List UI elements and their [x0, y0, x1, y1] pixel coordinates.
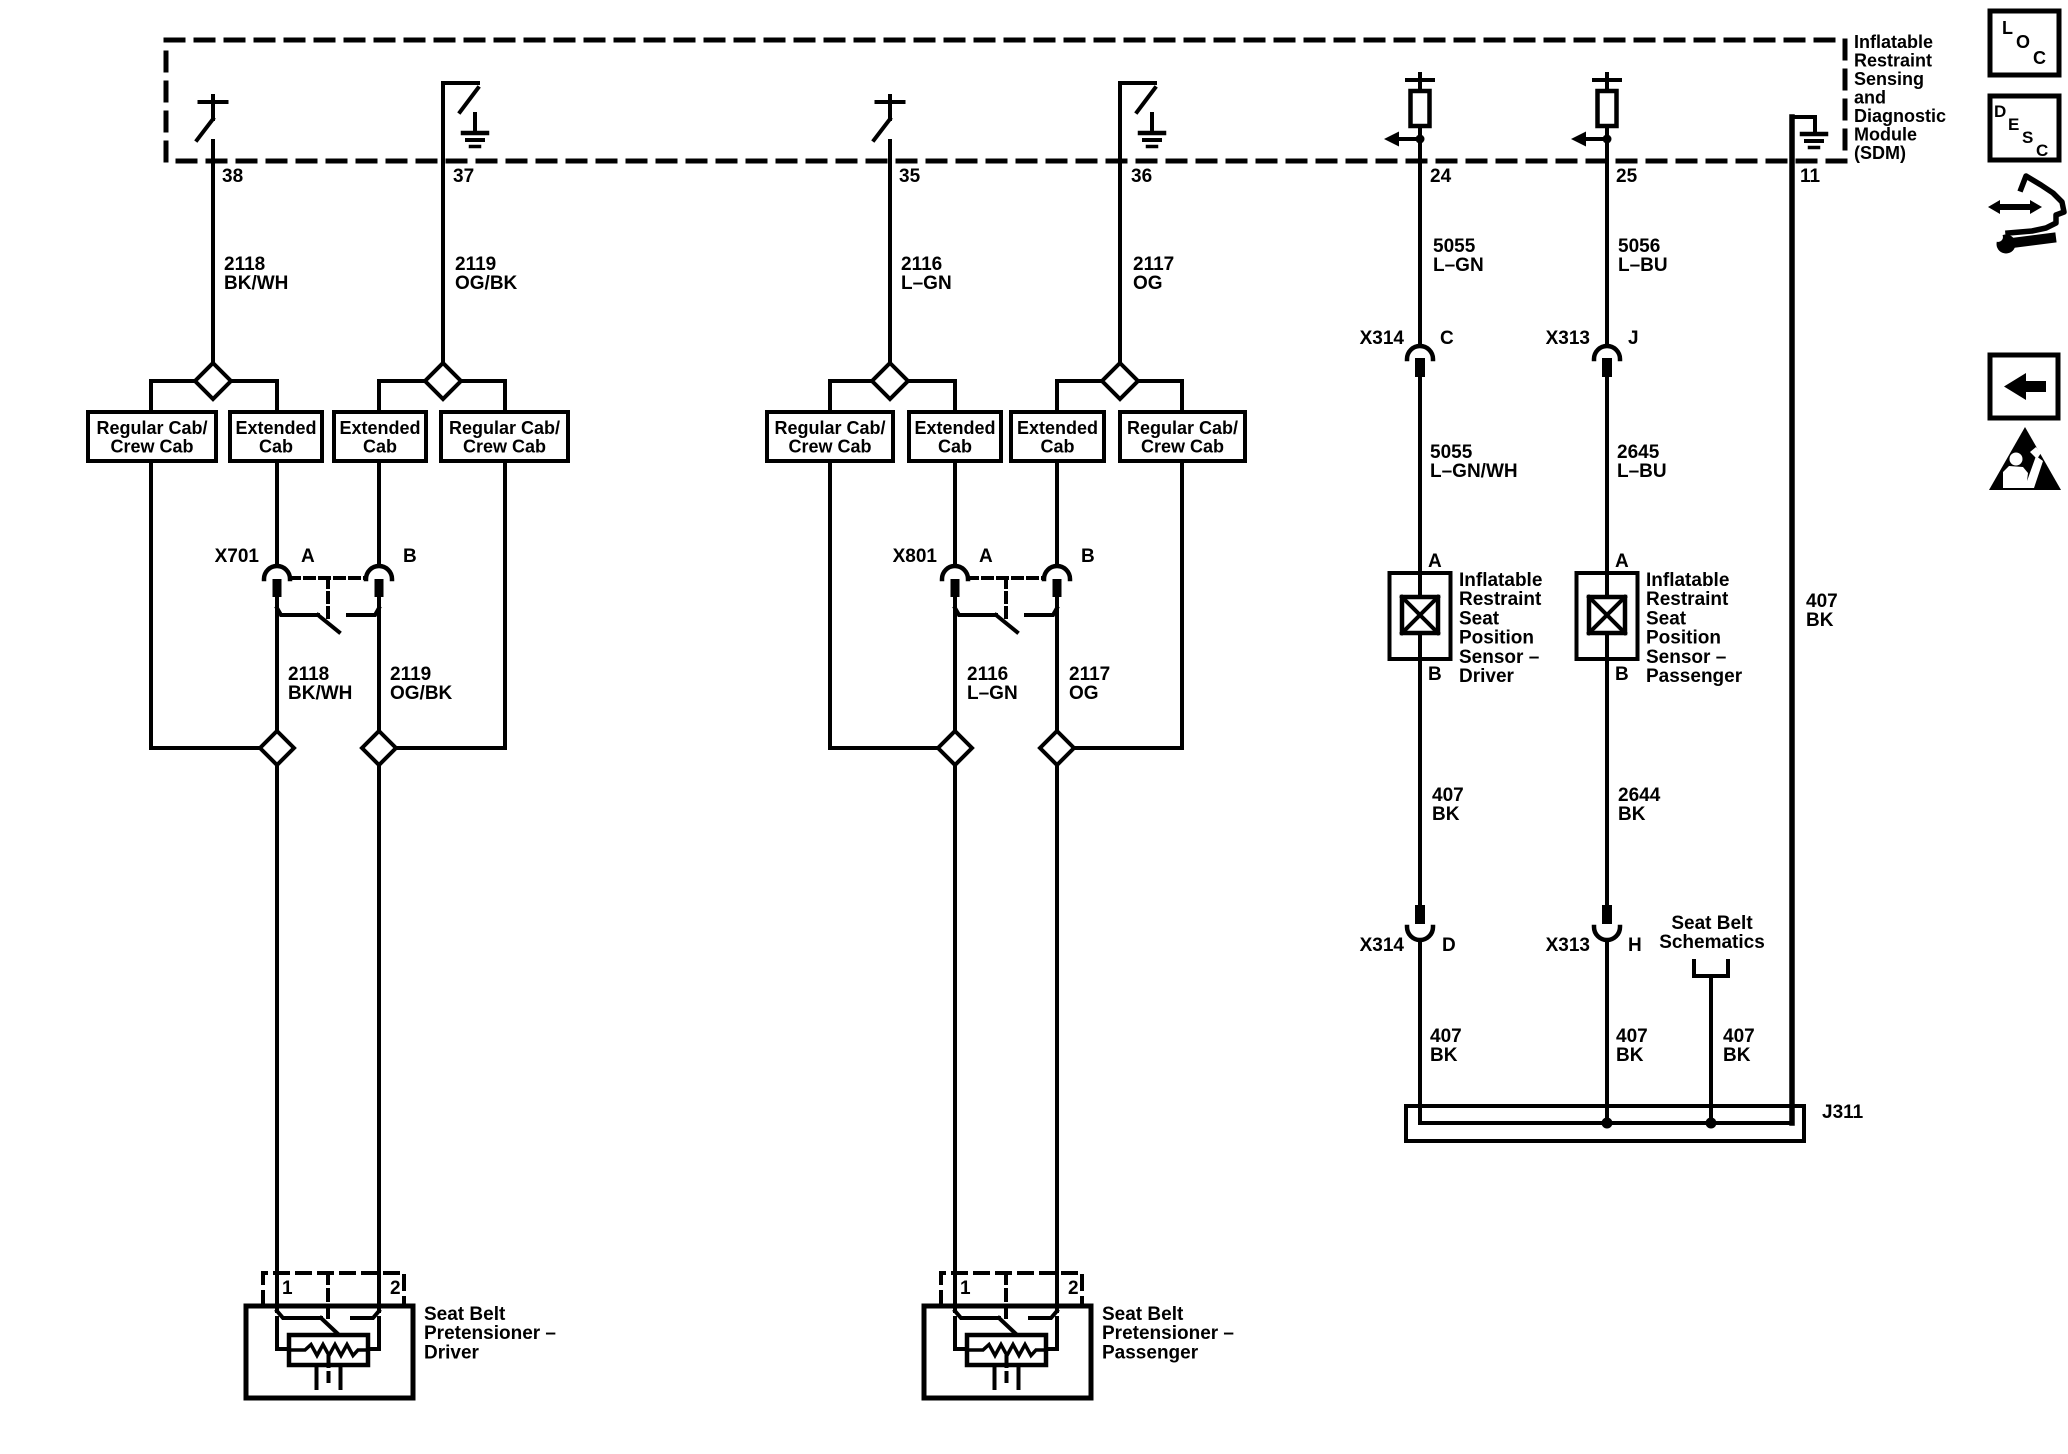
- svg-text:Sensor –: Sensor –: [1459, 647, 1539, 668]
- svg-text:2119: 2119: [390, 664, 431, 685]
- svg-text:X801: X801: [893, 546, 938, 567]
- svg-text:11: 11: [1800, 166, 1821, 187]
- connector face (dashed) of pretensioner Driver: [263, 1273, 404, 1305]
- svg-text:OG/BK: OG/BK: [455, 273, 518, 294]
- branch wire to Extended Cab: [908, 381, 955, 412]
- svg-text:407: 407: [1616, 1026, 1648, 1047]
- connector X314 cavity D: [1415, 905, 1425, 924]
- squib leads: [955, 1318, 967, 1349]
- inflatable restraint seat position sensor Passenger: [1577, 573, 1638, 659]
- wire through sensor driver: [1418, 377, 1422, 597]
- wire 2117 OG from SDM pin 36: [1118, 161, 1122, 363]
- svg-text:A: A: [979, 546, 993, 567]
- svg-text:C: C: [2036, 141, 2048, 160]
- svg-text:Seat Belt: Seat Belt: [1671, 913, 1753, 934]
- svg-text:407: 407: [1430, 1026, 1462, 1047]
- svg-text:Regular Cab/: Regular Cab/: [96, 418, 207, 438]
- svg-text:D: D: [1994, 102, 2006, 121]
- option box Extended Cab (2118): [230, 412, 322, 461]
- branch wire to Extended Cab: [379, 381, 425, 412]
- X801 shorting-bar dashed link: [968, 576, 1044, 580]
- svg-text:Schematics: Schematics: [1659, 932, 1765, 953]
- inflatable restraint seat position sensor Driver: [1390, 573, 1451, 659]
- SDM driver-firing switch, pin 35: [888, 96, 892, 102]
- splice diamond on wire 2116: [872, 363, 908, 399]
- wire 2117 Extended Cab through X801-B: [1055, 461, 1059, 566]
- option box Extended Cab (2116): [909, 412, 1001, 461]
- svg-text:BK: BK: [1430, 1045, 1458, 1066]
- branch wire to Extended Cab: [231, 381, 277, 412]
- wire 2118 to pretensioner driver pin 1: [275, 765, 279, 1311]
- SDM internal ground, pin 11: [1792, 117, 1815, 133]
- svg-text:407: 407: [1723, 1026, 1755, 1047]
- legend icon SIR caution triangle: [1989, 427, 2061, 490]
- svg-text:BK/WH: BK/WH: [224, 273, 288, 294]
- svg-text:2117: 2117: [1069, 664, 1110, 685]
- svg-text:Passenger: Passenger: [1646, 666, 1743, 687]
- wire 2118 BK/WH from SDM pin 38: [211, 141, 215, 363]
- splice diamond on wire 2118: [195, 363, 231, 399]
- svg-text:Seat Belt: Seat Belt: [1102, 1304, 1184, 1325]
- wire 2119 to pretensioner driver pin 2: [377, 765, 381, 1311]
- svg-text:Driver: Driver: [1459, 666, 1515, 687]
- svg-text:Sensor –: Sensor –: [1646, 647, 1726, 668]
- pretensioner Passenger case: [924, 1306, 1091, 1398]
- wire 407 BK to J311: [1420, 943, 1790, 1123]
- squib leads: [277, 1318, 289, 1349]
- svg-text:Extended: Extended: [1017, 418, 1098, 438]
- wire 2118 Extended Cab through X701-A: [275, 461, 279, 566]
- svg-text:L–GN/WH: L–GN/WH: [1430, 461, 1518, 482]
- legend icon LOC: [1990, 11, 2059, 75]
- svg-text:24: 24: [1430, 166, 1452, 187]
- svg-text:5055: 5055: [1430, 442, 1473, 463]
- svg-text:2118: 2118: [288, 664, 329, 685]
- svg-text:Passenger: Passenger: [1102, 1342, 1199, 1363]
- wire Regular Cab/Crew Cab loop (2117): [1073, 461, 1182, 748]
- svg-text:2116: 2116: [967, 664, 1008, 685]
- svg-text:2: 2: [1068, 1278, 1079, 1299]
- branch wire to Regular Cab/Crew Cab: [1138, 381, 1182, 412]
- splice diamond wire 2117: [1040, 731, 1074, 765]
- svg-text:Sensing: Sensing: [1854, 69, 1924, 89]
- svg-text:Restraint: Restraint: [1854, 51, 1932, 71]
- svg-text:Inflatable: Inflatable: [1646, 570, 1729, 591]
- svg-text:B: B: [1615, 664, 1629, 685]
- svg-text:J311: J311: [1822, 1102, 1864, 1123]
- svg-text:Seat: Seat: [1459, 608, 1500, 629]
- connector X313 cavity H: [1602, 905, 1612, 924]
- svg-text:L–BU: L–BU: [1617, 461, 1667, 482]
- svg-text:Position: Position: [1459, 628, 1534, 649]
- svg-text:Crew Cab: Crew Cab: [110, 437, 193, 457]
- SDM internal ground, pin 36: [1120, 83, 1155, 363]
- svg-text:A: A: [1615, 551, 1629, 572]
- svg-text:Pretensioner –: Pretensioner –: [1102, 1323, 1234, 1344]
- svg-text:BK/WH: BK/WH: [288, 683, 352, 704]
- svg-text:BK: BK: [1432, 804, 1460, 825]
- igniter base: [993, 1365, 997, 1388]
- wire 407 BK to J311 (passenger): [1605, 943, 1609, 1123]
- X801 shorting-bar contacts: [955, 608, 996, 615]
- shorting clip contacts: [277, 1311, 321, 1318]
- splice diamond wire 2119: [362, 731, 396, 765]
- wire 2119 OG/BK from SDM pin 37: [441, 161, 445, 363]
- svg-text:35: 35: [899, 166, 921, 187]
- svg-text:2644: 2644: [1618, 785, 1661, 806]
- svg-text:L–GN: L–GN: [901, 273, 952, 294]
- svg-text:and: and: [1854, 88, 1886, 108]
- svg-text:Regular Cab/: Regular Cab/: [774, 418, 885, 438]
- X701 shorting-bar dashed link: [290, 576, 366, 580]
- svg-text:OG/BK: OG/BK: [390, 683, 453, 704]
- svg-text:Cab: Cab: [259, 437, 293, 457]
- svg-text:L–GN: L–GN: [1433, 255, 1484, 276]
- splice diamond on wire 2119: [425, 363, 461, 399]
- svg-text:B: B: [1428, 664, 1442, 685]
- junction dot schematics wire: [1706, 1118, 1717, 1129]
- svg-text:1: 1: [282, 1278, 293, 1299]
- svg-text:Inflatable: Inflatable: [1854, 32, 1933, 52]
- SDM sense resistor with arrow, pin 25: [1605, 74, 1609, 80]
- svg-text:L–BU: L–BU: [1618, 255, 1668, 276]
- connector X801 pin A arc: [942, 566, 968, 579]
- SDM sense resistor with arrow, pin 24: [1418, 74, 1422, 80]
- svg-text:Cab: Cab: [938, 437, 972, 457]
- svg-text:B: B: [403, 546, 417, 567]
- svg-text:OG: OG: [1133, 273, 1163, 294]
- junction dot X313-H wire: [1602, 1118, 1613, 1129]
- wire 5055 L-GN from SDM pin 24: [1418, 141, 1422, 344]
- svg-text:BK: BK: [1723, 1045, 1751, 1066]
- svg-text:H: H: [1628, 935, 1642, 956]
- igniter base: [315, 1365, 319, 1388]
- splice diamond on wire 2117: [1102, 363, 1138, 399]
- branch wire to Regular Cab/Crew Cab: [151, 381, 195, 412]
- svg-text:Extended: Extended: [339, 418, 420, 438]
- svg-text:E: E: [2008, 115, 2019, 134]
- svg-text:Seat: Seat: [1646, 608, 1687, 629]
- svg-text:25: 25: [1616, 166, 1638, 187]
- svg-text:S: S: [2022, 128, 2033, 147]
- svg-text:5056: 5056: [1618, 236, 1660, 257]
- svg-text:X314: X314: [1360, 328, 1405, 349]
- wire 5056 L-BU from SDM pin 25: [1605, 141, 1609, 344]
- connector X314 cavity C: [1407, 346, 1433, 359]
- svg-text:Restraint: Restraint: [1646, 589, 1729, 610]
- splice diamond wire 2116: [938, 731, 972, 765]
- svg-text:Extended: Extended: [235, 418, 316, 438]
- svg-text:2118: 2118: [224, 254, 265, 275]
- svg-text:B: B: [1081, 546, 1095, 567]
- wire 2116 L-GN from SDM pin 35: [888, 141, 892, 363]
- pretensioner Driver case: [246, 1306, 413, 1398]
- svg-text:(SDM): (SDM): [1854, 143, 1906, 163]
- svg-text:BK: BK: [1616, 1045, 1644, 1066]
- SDM internal ground, pin 37: [443, 83, 478, 363]
- svg-text:2117: 2117: [1133, 254, 1174, 275]
- connector X801 pin B arc: [1044, 566, 1070, 579]
- svg-text:Regular Cab/: Regular Cab/: [1127, 418, 1238, 438]
- option box Regular Cab/Crew Cab (2117): [1120, 412, 1245, 461]
- svg-text:C: C: [2033, 48, 2046, 68]
- branch wire to Regular Cab/Crew Cab: [461, 381, 505, 412]
- branch wire to Regular Cab/Crew Cab: [830, 381, 872, 412]
- svg-text:407: 407: [1432, 785, 1464, 806]
- option box Regular Cab/Crew Cab (2116): [767, 412, 893, 461]
- option box Extended Cab (2119): [334, 412, 426, 461]
- wire 2119 Extended Cab through X701-B: [377, 461, 381, 566]
- svg-text:Diagnostic: Diagnostic: [1854, 106, 1946, 126]
- svg-text:X701: X701: [215, 546, 260, 567]
- svg-text:BK: BK: [1618, 804, 1646, 825]
- splice pack J311: [1406, 1106, 1804, 1141]
- svg-text:X314: X314: [1360, 935, 1405, 956]
- Inflatable Restraint Sensing and Diagnostic Module (SDM) dashed outline: [166, 40, 1845, 161]
- svg-text:D: D: [1442, 935, 1456, 956]
- svg-text:407: 407: [1806, 591, 1838, 612]
- svg-text:36: 36: [1131, 166, 1152, 187]
- legend icon DESC: [1990, 96, 2059, 160]
- svg-text:Cab: Cab: [1040, 437, 1074, 457]
- svg-text:X313: X313: [1546, 935, 1590, 956]
- connector X701 pin A arc: [264, 566, 290, 579]
- svg-text:2116: 2116: [901, 254, 942, 275]
- wire Regular Cab/Crew Cab loop (2116): [830, 461, 939, 748]
- wire Regular Cab/Crew Cab loop (2119): [395, 461, 505, 748]
- svg-text:Crew Cab: Crew Cab: [1141, 437, 1224, 457]
- svg-text:A: A: [1428, 551, 1442, 572]
- svg-text:2645: 2645: [1617, 442, 1660, 463]
- legend icon back arrow: [1990, 355, 2058, 418]
- svg-text:Crew Cab: Crew Cab: [463, 437, 546, 457]
- svg-text:Pretensioner –: Pretensioner –: [424, 1323, 556, 1344]
- branch wire to Extended Cab: [1057, 381, 1102, 412]
- svg-text:Inflatable: Inflatable: [1459, 570, 1542, 591]
- squib (igniter) of pretensioner Passenger: [967, 1335, 1046, 1365]
- connector X313 cavity J: [1594, 346, 1620, 359]
- wire 2117 to pretensioner passenger pin 2: [1055, 765, 1059, 1311]
- option box Regular Cab/Crew Cab (2118): [88, 412, 216, 461]
- svg-text:1: 1: [960, 1278, 971, 1299]
- svg-text:Crew Cab: Crew Cab: [788, 437, 871, 457]
- svg-text:J: J: [1628, 328, 1639, 349]
- svg-text:BK: BK: [1806, 610, 1834, 631]
- legend icon diagnostics (arrows and wrench): [1999, 204, 2031, 210]
- wire 407 BK from SDM pin 11: [1789, 117, 1795, 1123]
- svg-text:2119: 2119: [455, 254, 496, 275]
- option box Extended Cab (2117): [1011, 412, 1104, 461]
- svg-text:2: 2: [390, 1278, 401, 1299]
- svg-text:C: C: [1440, 328, 1454, 349]
- svg-text:X313: X313: [1546, 328, 1590, 349]
- svg-text:37: 37: [453, 166, 474, 187]
- svg-text:Restraint: Restraint: [1459, 589, 1542, 610]
- svg-text:Extended: Extended: [914, 418, 995, 438]
- connector face (dashed) of pretensioner Passenger: [941, 1273, 1082, 1305]
- connector X701 pin B arc: [366, 566, 392, 579]
- svg-text:L–GN: L–GN: [967, 683, 1018, 704]
- wire 407 BK from seat belt schematics: [1709, 976, 1713, 1123]
- X701 shorting-bar contacts: [277, 608, 318, 615]
- svg-text:38: 38: [222, 166, 243, 187]
- svg-text:Position: Position: [1646, 628, 1721, 649]
- svg-text:A: A: [301, 546, 315, 567]
- svg-text:Regular Cab/: Regular Cab/: [449, 418, 560, 438]
- squib (igniter) of pretensioner Driver: [289, 1335, 368, 1365]
- svg-text:Cab: Cab: [363, 437, 397, 457]
- splice diamond wire 2118: [260, 731, 294, 765]
- shorting clip contacts: [955, 1311, 999, 1318]
- svg-text:Seat Belt: Seat Belt: [424, 1304, 506, 1325]
- svg-text:Module: Module: [1854, 125, 1917, 145]
- option box Regular Cab/Crew Cab (2119): [441, 412, 568, 461]
- svg-text:O: O: [2016, 32, 2030, 52]
- svg-text:OG: OG: [1069, 683, 1099, 704]
- svg-text:Driver: Driver: [424, 1342, 480, 1363]
- svg-text:L: L: [2002, 18, 2013, 38]
- SDM driver-firing switch, pin 38: [211, 96, 215, 102]
- wire Regular Cab/Crew Cab loop (2118): [151, 461, 261, 748]
- wire 2116 to pretensioner passenger pin 1: [953, 765, 957, 1311]
- wire 2116 Extended Cab through X801-A: [953, 461, 957, 566]
- svg-text:5055: 5055: [1433, 236, 1476, 257]
